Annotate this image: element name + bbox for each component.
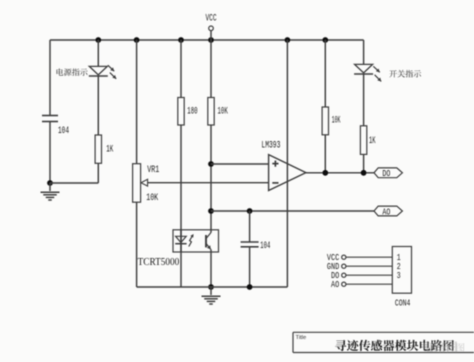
svg-text:10K: 10K xyxy=(332,116,341,127)
svg-text:1K: 1K xyxy=(106,145,113,156)
svg-text:CON4: CON4 xyxy=(395,297,411,308)
svg-text:10K: 10K xyxy=(218,106,228,117)
svg-text:DO: DO xyxy=(382,168,390,179)
svg-text:VR1: VR1 xyxy=(147,165,159,176)
svg-text:104: 104 xyxy=(260,241,270,252)
svg-text:VCC: VCC xyxy=(206,14,217,25)
svg-text:180: 180 xyxy=(187,106,197,117)
svg-text:AO: AO xyxy=(331,279,339,290)
svg-text:Title: Title xyxy=(296,335,307,341)
svg-text:3: 3 xyxy=(397,270,401,281)
svg-text:1K: 1K xyxy=(369,136,376,147)
svg-text:TCRT5000: TCRT5000 xyxy=(138,257,180,268)
svg-text:AO: AO xyxy=(382,206,390,217)
svg-text:LM393: LM393 xyxy=(261,141,280,152)
svg-text:104: 104 xyxy=(58,126,69,137)
svg-text:10K: 10K xyxy=(146,193,158,204)
